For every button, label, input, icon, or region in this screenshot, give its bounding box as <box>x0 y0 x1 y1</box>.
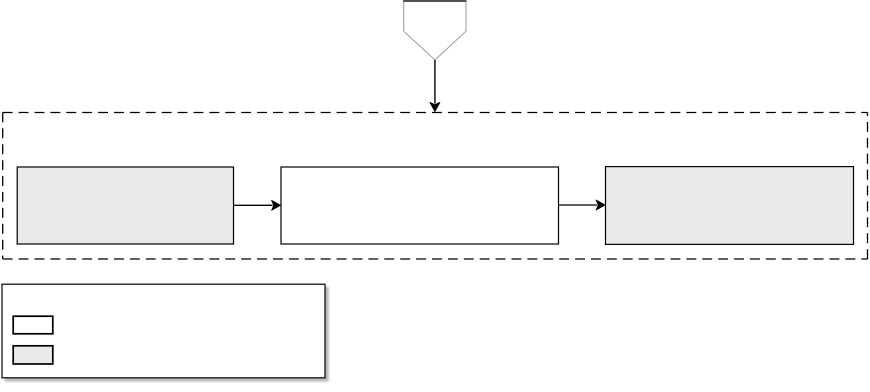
dashed container: bottom edge <box>3 258 868 260</box>
arrowhead 2 <box>596 200 605 210</box>
wire: vertical connector into dashed container <box>434 60 436 104</box>
legend box (with drop shadow) <box>2 284 325 378</box>
dashed container: top edge <box>3 112 868 114</box>
dashed container: left edge <box>2 113 4 260</box>
legend key: white sample box <box>13 316 53 334</box>
legend key: gray sample box <box>13 346 53 364</box>
off-page connector (pentagon, start shape) <box>404 1 466 60</box>
arrowhead down <box>430 102 440 111</box>
process box 3 (gray) <box>606 167 854 245</box>
wire: arrow 1 <box>234 204 273 206</box>
dashed container: right edge <box>867 113 869 260</box>
pentagon top edge (dark clipped border) <box>403 0 466 2</box>
process box 1 (gray) <box>17 167 233 244</box>
process box 2 (white) <box>281 167 559 244</box>
wire: arrow 2 <box>559 204 598 206</box>
arrowhead 1 <box>272 200 281 210</box>
